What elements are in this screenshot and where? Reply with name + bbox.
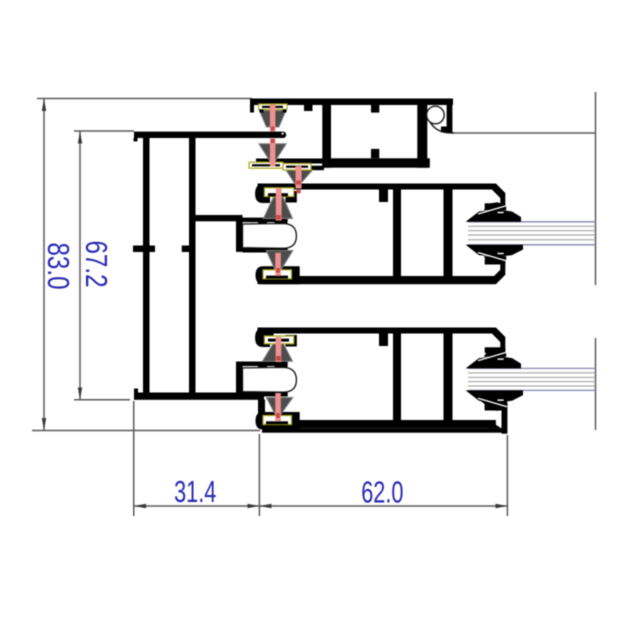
- svg-text:67.2: 67.2: [79, 240, 114, 287]
- svg-text:31.4: 31.4: [174, 474, 216, 509]
- svg-text:83.0: 83.0: [42, 242, 77, 289]
- svg-text:62.0: 62.0: [361, 475, 403, 510]
